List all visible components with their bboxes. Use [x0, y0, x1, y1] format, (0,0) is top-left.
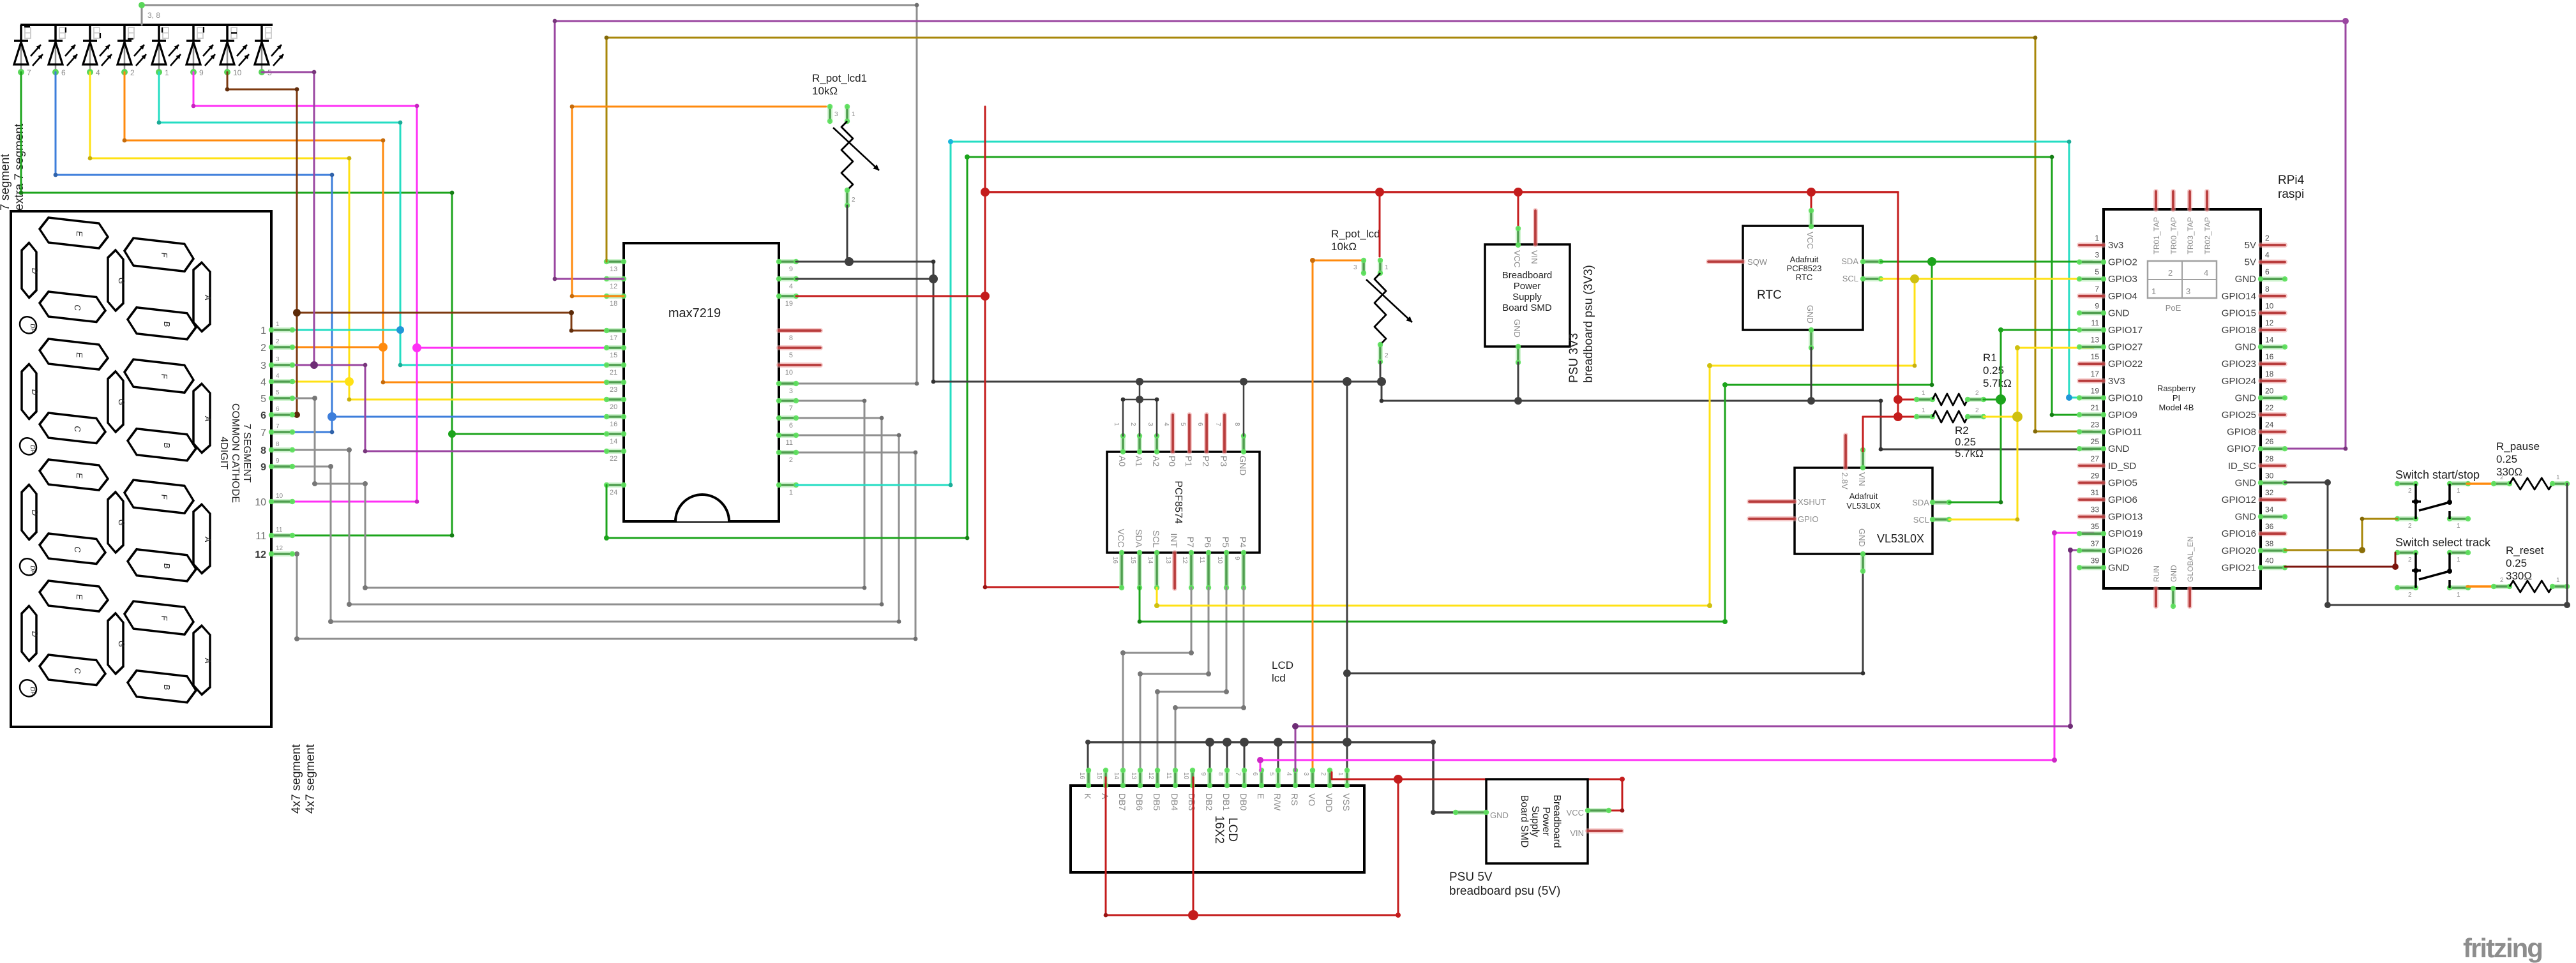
svg-text:7: 7 — [789, 405, 793, 412]
svg-text:VCC: VCC — [1805, 232, 1815, 249]
svg-text:1: 1 — [165, 68, 169, 77]
svg-text:P0: P0 — [1167, 456, 1177, 467]
svg-text:5.7kΩ: 5.7kΩ — [1955, 447, 1984, 459]
svg-text:GND: GND — [2108, 562, 2130, 573]
svg-text:9: 9 — [789, 265, 793, 273]
svg-text:R2: R2 — [1955, 424, 1969, 437]
svg-text:4: 4 — [789, 283, 793, 290]
svg-text:2: 2 — [2408, 556, 2412, 564]
svg-text:1: 1 — [260, 325, 266, 336]
svg-text:XSHUT: XSHUT — [1798, 497, 1826, 507]
svg-text:1: 1 — [2457, 592, 2460, 599]
svg-text:14: 14 — [2265, 336, 2274, 345]
svg-text:max7219: max7219 — [668, 306, 721, 320]
svg-text:DB2: DB2 — [1204, 793, 1214, 810]
svg-text:RUN: RUN — [2152, 565, 2161, 582]
svg-text:10kΩ: 10kΩ — [1331, 241, 1357, 253]
svg-text:2: 2 — [130, 68, 135, 77]
svg-text:35: 35 — [2091, 522, 2100, 531]
svg-text:VCC: VCC — [1567, 808, 1584, 817]
svg-text:24: 24 — [2265, 421, 2274, 429]
svg-text:15: 15 — [610, 352, 617, 359]
svg-text:12: 12 — [2265, 318, 2274, 327]
svg-text:5: 5 — [260, 394, 266, 405]
svg-text:C: C — [73, 426, 82, 433]
svg-text:9: 9 — [1200, 772, 1207, 776]
svg-text:2: 2 — [852, 197, 855, 204]
svg-text:12: 12 — [610, 283, 617, 290]
svg-text:11: 11 — [786, 439, 793, 447]
svg-text:18: 18 — [2265, 370, 2274, 378]
svg-text:GPIO11: GPIO11 — [2108, 427, 2142, 438]
svg-text:GND: GND — [2169, 565, 2178, 582]
svg-text:R_pot_lcd1: R_pot_lcd1 — [812, 72, 867, 84]
svg-text:0.25: 0.25 — [2496, 453, 2517, 465]
svg-text:R/W: R/W — [1272, 793, 1283, 811]
svg-text:VL53L0X: VL53L0X — [1846, 501, 1881, 511]
svg-text:RPi4: RPi4 — [2278, 174, 2305, 187]
svg-text:1: 1 — [1922, 407, 1925, 414]
svg-text:7: 7 — [276, 423, 280, 430]
svg-text:GPIO18: GPIO18 — [2222, 325, 2256, 336]
svg-text:G: G — [117, 519, 126, 526]
svg-text:11: 11 — [276, 526, 283, 534]
svg-text:16: 16 — [1111, 556, 1119, 564]
svg-text:8: 8 — [276, 441, 280, 448]
svg-text:SDA: SDA — [1134, 529, 1144, 548]
svg-text:12: 12 — [1147, 772, 1154, 780]
svg-text:1: 1 — [789, 489, 793, 496]
svg-text:DB5: DB5 — [1152, 793, 1162, 810]
svg-text:19: 19 — [785, 300, 793, 308]
svg-text:GPIO6: GPIO6 — [2108, 495, 2137, 505]
svg-text:GPIO14: GPIO14 — [2222, 291, 2256, 302]
svg-text:R1: R1 — [1983, 352, 1997, 364]
svg-text:breadboard psu (5V): breadboard psu (5V) — [1449, 885, 1560, 898]
svg-text:LCD: LCD — [1226, 817, 1239, 842]
svg-text:G: G — [117, 398, 126, 406]
svg-text:9: 9 — [1233, 556, 1240, 560]
svg-text:29: 29 — [2091, 471, 2100, 480]
svg-text:2: 2 — [260, 343, 266, 354]
svg-text:2.8V: 2.8V — [1840, 472, 1849, 489]
svg-text:GPIO20: GPIO20 — [2222, 546, 2256, 556]
svg-text:PoE: PoE — [2165, 303, 2181, 313]
svg-text:2: 2 — [2168, 268, 2173, 278]
svg-text:7 segment: 7 segment — [0, 154, 12, 211]
svg-text:23: 23 — [610, 386, 617, 394]
svg-text:TR03_TAP: TR03_TAP — [2186, 217, 2195, 254]
svg-text:33: 33 — [2091, 505, 2100, 514]
svg-text:GND: GND — [1857, 528, 1867, 547]
svg-text:A1: A1 — [1134, 456, 1144, 467]
svg-text:Breadboard: Breadboard — [1551, 795, 1562, 848]
svg-text:1: 1 — [2151, 287, 2156, 296]
svg-text:16: 16 — [610, 421, 617, 428]
svg-text:37: 37 — [2091, 539, 2100, 548]
svg-text:GPIO4: GPIO4 — [2108, 291, 2137, 302]
svg-text:D: D — [30, 631, 40, 638]
svg-text:8: 8 — [1233, 422, 1240, 426]
svg-text:VL53L0X: VL53L0X — [1877, 532, 1924, 545]
svg-text:13: 13 — [2091, 336, 2100, 345]
svg-text:PSU 3V3: PSU 3V3 — [1567, 333, 1581, 383]
svg-text:7: 7 — [260, 428, 266, 438]
svg-text:A2: A2 — [1151, 456, 1161, 467]
svg-text:2: 2 — [2500, 474, 2504, 481]
svg-text:COMMON CATHODE: COMMON CATHODE — [230, 403, 241, 503]
svg-text:12: 12 — [255, 549, 266, 560]
svg-text:1: 1 — [852, 111, 855, 118]
svg-text:3: 3 — [789, 387, 793, 395]
svg-text:13: 13 — [610, 265, 617, 273]
svg-text:Switch select track: Switch select track — [2395, 536, 2491, 549]
svg-text:10: 10 — [255, 497, 266, 508]
svg-text:10: 10 — [1216, 556, 1223, 564]
svg-text:RTC: RTC — [1796, 272, 1812, 282]
svg-text:1: 1 — [2457, 523, 2460, 530]
svg-text:8: 8 — [2265, 285, 2270, 294]
svg-text:GPIO2: GPIO2 — [2108, 257, 2137, 268]
svg-text:Adafruit: Adafruit — [1849, 491, 1878, 501]
svg-text:Power: Power — [1540, 807, 1551, 836]
svg-text:6: 6 — [2265, 267, 2270, 276]
svg-text:21: 21 — [2091, 403, 2100, 412]
svg-text:GPIO10: GPIO10 — [2108, 392, 2143, 403]
svg-text:15: 15 — [2091, 352, 2100, 361]
svg-text:3, 8: 3, 8 — [147, 11, 160, 20]
svg-text:GPIO13: GPIO13 — [2108, 512, 2143, 523]
svg-text:SCL: SCL — [1151, 530, 1161, 548]
svg-text:GPIO: GPIO — [1798, 514, 1819, 524]
svg-text:14: 14 — [1113, 772, 1120, 780]
svg-text:D: D — [30, 389, 40, 396]
svg-text:24: 24 — [610, 489, 617, 496]
svg-text:26: 26 — [2265, 437, 2274, 446]
svg-text:3: 3 — [834, 111, 838, 118]
svg-text:SDA: SDA — [1841, 257, 1858, 266]
svg-text:GPIO21: GPIO21 — [2222, 562, 2256, 573]
svg-text:6: 6 — [1251, 772, 1258, 776]
svg-text:1: 1 — [1337, 772, 1344, 776]
svg-text:16: 16 — [2265, 352, 2274, 361]
svg-text:raspi: raspi — [2278, 188, 2304, 201]
svg-text:0.25: 0.25 — [1955, 436, 1976, 448]
svg-text:GPIO23: GPIO23 — [2222, 359, 2256, 370]
svg-text:3: 3 — [1302, 772, 1309, 776]
svg-text:VIN: VIN — [1570, 828, 1584, 838]
svg-text:3V3: 3V3 — [2108, 376, 2125, 387]
svg-text:5V: 5V — [2245, 240, 2256, 251]
svg-text:7: 7 — [1234, 772, 1241, 776]
svg-text:39: 39 — [2091, 556, 2100, 565]
svg-text:GLOBAL_EN: GLOBAL_EN — [2186, 537, 2195, 582]
svg-text:G: G — [117, 640, 126, 648]
svg-text:VCC: VCC — [1512, 250, 1522, 267]
svg-text:VIN: VIN — [1530, 250, 1539, 264]
svg-text:Supply: Supply — [1512, 292, 1542, 302]
svg-text:RTC: RTC — [1757, 288, 1782, 302]
svg-text:D: D — [30, 267, 40, 274]
svg-text:E: E — [1256, 793, 1266, 799]
svg-text:31: 31 — [2091, 488, 2100, 497]
svg-text:2: 2 — [2408, 592, 2412, 599]
svg-text:C: C — [73, 546, 82, 553]
svg-text:Supply: Supply — [1530, 806, 1540, 837]
svg-text:1: 1 — [276, 321, 280, 328]
svg-text:2: 2 — [1975, 390, 1979, 397]
svg-text:6: 6 — [789, 422, 793, 429]
svg-text:9: 9 — [276, 458, 280, 465]
svg-text:7: 7 — [27, 68, 31, 77]
svg-text:27: 27 — [2091, 454, 2100, 463]
svg-text:7 SEGMENT: 7 SEGMENT — [241, 424, 252, 483]
svg-text:3v3: 3v3 — [2108, 240, 2123, 251]
svg-text:23: 23 — [2091, 421, 2100, 429]
svg-text:DP: DP — [29, 445, 36, 454]
svg-text:18: 18 — [610, 300, 617, 308]
svg-text:1: 1 — [2457, 488, 2460, 495]
svg-text:11: 11 — [1165, 772, 1172, 779]
svg-text:VIN: VIN — [1857, 472, 1867, 486]
svg-text:R_pot_lcd: R_pot_lcd — [1331, 228, 1380, 240]
svg-text:PI: PI — [2173, 393, 2180, 403]
svg-text:D: D — [30, 509, 40, 516]
svg-text:GND: GND — [1238, 456, 1248, 475]
svg-text:9: 9 — [2095, 301, 2099, 310]
svg-text:2: 2 — [2408, 488, 2412, 495]
svg-text:19: 19 — [2091, 386, 2100, 395]
svg-text:22: 22 — [2265, 403, 2274, 412]
svg-text:4: 4 — [96, 68, 100, 77]
svg-text:RS: RS — [1290, 793, 1300, 805]
svg-text:2: 2 — [276, 338, 280, 345]
svg-text:2: 2 — [1320, 772, 1327, 776]
svg-text:10: 10 — [2265, 301, 2274, 310]
svg-text:32: 32 — [2265, 488, 2274, 497]
svg-text:5: 5 — [789, 352, 793, 359]
svg-text:R_reset: R_reset — [2506, 544, 2544, 556]
svg-text:GPIO19: GPIO19 — [2108, 528, 2143, 539]
svg-text:Raspberry: Raspberry — [2157, 384, 2196, 393]
svg-text:20: 20 — [610, 403, 617, 411]
svg-text:1: 1 — [1113, 422, 1120, 426]
svg-text:8: 8 — [1217, 772, 1224, 776]
svg-text:5: 5 — [1179, 422, 1186, 426]
svg-text:4: 4 — [2204, 268, 2208, 278]
svg-text:10: 10 — [785, 369, 793, 377]
svg-text:GPIO22: GPIO22 — [2108, 359, 2143, 370]
svg-text:DB3: DB3 — [1187, 793, 1197, 810]
svg-text:P3: P3 — [1219, 456, 1229, 467]
svg-text:1: 1 — [2556, 577, 2560, 584]
svg-text:12: 12 — [276, 545, 283, 552]
svg-text:10kΩ: 10kΩ — [812, 85, 838, 97]
svg-text:DP: DP — [29, 324, 36, 333]
svg-text:9: 9 — [199, 68, 204, 77]
svg-text:28: 28 — [2265, 454, 2274, 463]
svg-text:DP: DP — [29, 687, 36, 696]
svg-text:R_pause: R_pause — [2496, 440, 2540, 452]
svg-text:G: G — [117, 277, 126, 285]
svg-text:P4: P4 — [1238, 537, 1248, 548]
svg-text:VO: VO — [1307, 793, 1317, 806]
svg-text:1: 1 — [2556, 474, 2560, 481]
svg-text:7: 7 — [2095, 285, 2099, 294]
svg-text:GPIO7: GPIO7 — [2227, 444, 2256, 454]
svg-text:0.25: 0.25 — [2506, 557, 2527, 569]
svg-text:40: 40 — [2265, 556, 2274, 565]
svg-text:10: 10 — [233, 68, 242, 77]
svg-text:GPIO27: GPIO27 — [2108, 342, 2143, 353]
svg-text:ID_SC: ID_SC — [2228, 461, 2256, 472]
svg-text:P2: P2 — [1201, 456, 1211, 467]
svg-text:16: 16 — [1078, 772, 1085, 780]
svg-text:Switch start/stop: Switch start/stop — [2395, 468, 2480, 481]
svg-text:25: 25 — [2091, 437, 2100, 446]
svg-text:2: 2 — [2408, 523, 2412, 530]
svg-text:2: 2 — [1975, 407, 1979, 414]
svg-text:6: 6 — [61, 68, 66, 77]
svg-text:GND: GND — [1805, 305, 1815, 324]
svg-text:3: 3 — [1147, 422, 1154, 426]
svg-text:DB4: DB4 — [1170, 793, 1180, 810]
svg-text:8: 8 — [260, 445, 266, 456]
svg-text:breadboard psu (3V3): breadboard psu (3V3) — [1582, 265, 1595, 383]
svg-text:6: 6 — [276, 406, 280, 413]
svg-text:B: B — [162, 684, 172, 691]
svg-text:VCC: VCC — [1116, 528, 1126, 548]
svg-text:PCF8574: PCF8574 — [1173, 481, 1184, 524]
svg-text:GND: GND — [2108, 308, 2130, 318]
svg-text:13: 13 — [1164, 556, 1171, 564]
svg-text:DB0: DB0 — [1239, 793, 1249, 810]
svg-text:11: 11 — [2091, 318, 2100, 327]
svg-text:7: 7 — [1214, 422, 1221, 426]
svg-text:GND: GND — [2235, 512, 2257, 523]
svg-text:9: 9 — [260, 462, 266, 473]
svg-text:14: 14 — [1147, 556, 1154, 564]
svg-text:P7: P7 — [1186, 537, 1196, 548]
svg-text:P1: P1 — [1184, 456, 1194, 467]
svg-text:TR01_TAP: TR01_TAP — [2152, 217, 2161, 254]
svg-text:4: 4 — [1163, 422, 1170, 426]
svg-text:GPIO3: GPIO3 — [2108, 274, 2137, 285]
svg-text:2: 2 — [1385, 352, 1389, 359]
svg-text:5: 5 — [276, 389, 280, 396]
svg-text:GND: GND — [1490, 810, 1509, 820]
svg-text:PSU 5V: PSU 5V — [1449, 870, 1493, 884]
svg-text:13: 13 — [1130, 772, 1137, 780]
svg-text:VDD: VDD — [1324, 793, 1334, 812]
svg-text:C: C — [73, 668, 82, 675]
svg-text:3: 3 — [1353, 264, 1357, 271]
svg-text:extra 7 segment: extra 7 segment — [13, 123, 26, 211]
svg-text:Board SMD: Board SMD — [1519, 795, 1530, 848]
svg-text:1: 1 — [2457, 556, 2460, 564]
svg-text:DB6: DB6 — [1134, 793, 1145, 810]
svg-text:4x7 segment: 4x7 segment — [290, 743, 303, 814]
svg-text:4: 4 — [276, 373, 280, 380]
svg-text:Breadboard: Breadboard — [1502, 270, 1552, 281]
svg-text:10: 10 — [1182, 772, 1189, 780]
svg-text:36: 36 — [2265, 522, 2274, 531]
svg-text:17: 17 — [2091, 370, 2100, 378]
svg-text:SCL: SCL — [1842, 274, 1858, 283]
svg-text:3: 3 — [276, 356, 280, 363]
svg-text:30: 30 — [2265, 471, 2274, 480]
svg-text:21: 21 — [610, 369, 617, 377]
svg-text:2: 2 — [1129, 422, 1136, 426]
svg-text:2: 2 — [2265, 234, 2270, 243]
svg-text:A0: A0 — [1117, 456, 1127, 467]
svg-text:15: 15 — [1129, 556, 1136, 564]
svg-text:4: 4 — [2265, 251, 2270, 260]
svg-text:SCL: SCL — [1913, 515, 1929, 525]
svg-text:C: C — [73, 304, 82, 311]
svg-text:SDA: SDA — [1912, 498, 1929, 507]
svg-text:TR02_TAP: TR02_TAP — [2203, 217, 2212, 254]
svg-text:11: 11 — [255, 531, 266, 542]
svg-text:4: 4 — [1285, 772, 1292, 776]
svg-text:1: 1 — [1385, 264, 1389, 271]
svg-text:GND: GND — [2235, 342, 2257, 353]
svg-text:DB7: DB7 — [1117, 793, 1127, 810]
svg-text:GPIO9: GPIO9 — [2108, 410, 2137, 421]
svg-text:GPIO25: GPIO25 — [2222, 410, 2256, 421]
svg-text:K: K — [1083, 793, 1093, 800]
svg-text:Adafruit: Adafruit — [1790, 255, 1819, 264]
svg-text:11: 11 — [1198, 556, 1205, 564]
svg-text:B: B — [162, 321, 172, 327]
svg-text:2: 2 — [2500, 577, 2504, 584]
svg-text:38: 38 — [2265, 539, 2274, 548]
svg-text:GPIO12: GPIO12 — [2222, 495, 2256, 505]
svg-text:6: 6 — [1196, 422, 1203, 426]
svg-text:34: 34 — [2265, 505, 2274, 514]
svg-text:22: 22 — [610, 455, 617, 463]
svg-text:4x7 segment: 4x7 segment — [304, 743, 317, 814]
svg-text:3: 3 — [2095, 251, 2099, 260]
svg-text:TR00_TAP: TR00_TAP — [2169, 217, 2178, 254]
svg-text:1: 1 — [1922, 390, 1925, 397]
svg-text:B: B — [162, 563, 172, 569]
svg-text:GND: GND — [2235, 392, 2257, 403]
svg-text:DB1: DB1 — [1221, 793, 1232, 810]
svg-text:14: 14 — [610, 438, 617, 445]
svg-text:GPIO26: GPIO26 — [2108, 546, 2143, 556]
svg-text:12: 12 — [1181, 556, 1188, 564]
svg-text:LCD: LCD — [1272, 659, 1293, 671]
svg-text:GPIO16: GPIO16 — [2222, 528, 2256, 539]
svg-text:5V: 5V — [2245, 257, 2256, 268]
svg-text:3: 3 — [2186, 287, 2190, 296]
svg-text:SQW: SQW — [1747, 257, 1768, 267]
svg-text:GND: GND — [2235, 274, 2257, 285]
svg-text:GPIO17: GPIO17 — [2108, 325, 2143, 336]
svg-text:GPIO24: GPIO24 — [2222, 376, 2256, 387]
svg-text:3: 3 — [260, 361, 266, 371]
svg-text:Board SMD: Board SMD — [1502, 302, 1552, 313]
svg-text:5.7kΩ: 5.7kΩ — [1983, 377, 2012, 389]
svg-text:8: 8 — [789, 334, 793, 342]
svg-text:B: B — [162, 442, 172, 449]
svg-text:2: 2 — [789, 456, 793, 464]
svg-text:GND: GND — [2235, 477, 2257, 488]
svg-text:VSS: VSS — [1341, 793, 1352, 811]
svg-text:PCF8523: PCF8523 — [1787, 264, 1822, 273]
svg-text:INT: INT — [1169, 533, 1179, 548]
